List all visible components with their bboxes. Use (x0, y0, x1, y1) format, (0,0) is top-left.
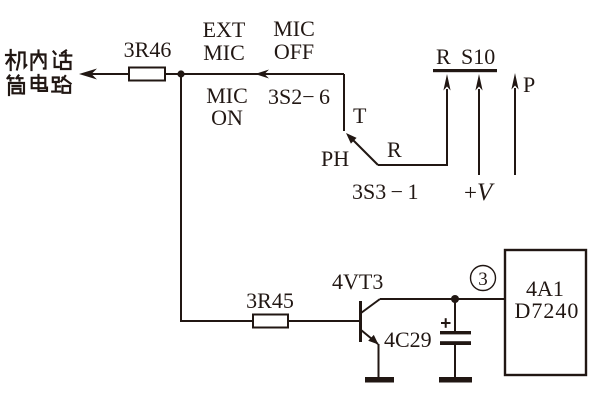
svg-text:4VT3: 4VT3 (332, 269, 383, 294)
node: junction dot at capacitor (451, 295, 459, 303)
svg-text:3S2− 6: 3S2− 6 (268, 84, 330, 109)
wire: left arrow to resistor 3R46 (88, 73, 129, 75)
pin 3 circle (471, 266, 496, 291)
arrowhead to internal mic circuit (points left) (79, 69, 97, 80)
label: 筒电路 (hand-drawn glyphs) (8, 75, 71, 95)
arrowhead up to R S10 (443, 74, 450, 91)
svg-text:P: P (523, 72, 535, 97)
svg-text:PH: PH (321, 146, 349, 171)
svg-text:T: T (353, 103, 367, 128)
svg-text:MIC: MIC (273, 16, 315, 41)
wire: collector to IC box (380, 298, 505, 300)
svg-text:R: R (436, 44, 451, 69)
svg-text:MIC: MIC (203, 40, 245, 65)
svg-text:3S3 − 1: 3S3 − 1 (352, 179, 418, 204)
capacitor 4C29 plus sign (441, 322, 451, 324)
svg-text:3: 3 (478, 269, 488, 290)
wire: capacitor to ground (454, 345, 456, 377)
svg-text:+V: +V (464, 179, 495, 206)
transistor 4VT3 collector (361, 299, 380, 313)
resistor 3R45 (253, 315, 288, 328)
svg-text:R: R (387, 137, 402, 162)
svg-text:3R46: 3R46 (124, 37, 172, 62)
wire: 3R45 to base of 4VT3 (288, 320, 360, 322)
svg-text:ON: ON (211, 105, 243, 130)
transistor 4VT3 base bar (359, 301, 362, 342)
IC 4A1 D7240 box (505, 250, 586, 375)
svg-text:EXT: EXT (203, 17, 246, 42)
ground (capacitor) (439, 377, 472, 383)
label: 机内话 (hand-drawn glyphs) (6, 50, 71, 70)
transistor 4VT3 emitter with arrow (361, 330, 378, 344)
resistor 3R46 (129, 68, 165, 81)
svg-text:D7240: D7240 (515, 298, 580, 323)
svg-text:4C29: 4C29 (384, 327, 432, 352)
svg-text:S10: S10 (461, 44, 495, 69)
svg-text:OFF: OFF (274, 39, 314, 64)
arrow P (vertical, up) (514, 88, 516, 175)
wire: vertical from node down to 3R45 (181, 74, 253, 321)
wire: resistor 3R46 to switch 3S2-6 (165, 73, 344, 75)
node: junction dot (177, 70, 184, 77)
arrowhead on wire (points left) (255, 70, 269, 79)
ground (emitter) (365, 377, 394, 383)
wire: switch common to R S10 arrow (378, 89, 447, 165)
svg-text:3R45: 3R45 (246, 288, 294, 313)
arrow +V (vertical, up) (478, 89, 480, 175)
switch 3S2-6 wire: vertical drop at right (343, 74, 345, 131)
capacitor 4C29 plates (440, 331, 471, 334)
wire: junction down to capacitor (454, 299, 456, 331)
switch 3S3-1 arm with arrowhead toward T (349, 136, 378, 165)
wire: emitter down to ground (378, 344, 380, 377)
